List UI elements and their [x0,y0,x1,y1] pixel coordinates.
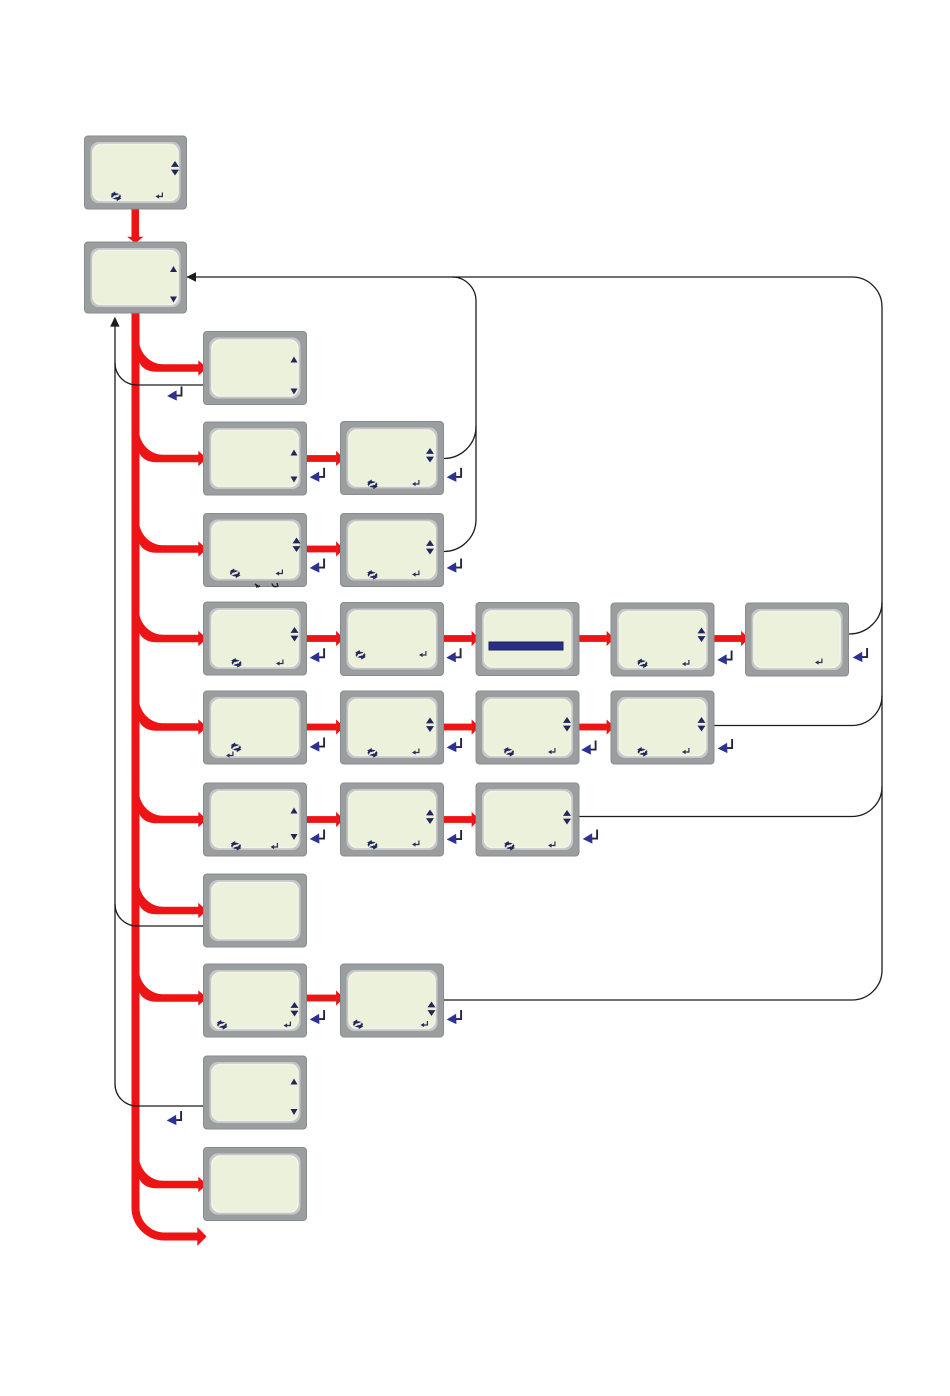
red trunk [136,310,198,1237]
enter icon row8 after col2 [447,1010,461,1024]
box row5 col1 [204,691,307,764]
enter icon row2 after col2 [447,468,461,482]
box row8 col2 [341,964,444,1037]
return branch from row1 [115,363,204,385]
enter icon row3 after col1 [310,559,324,573]
box row5 col2 [341,691,444,764]
box row4 col2 [341,603,444,676]
red arrow between boxes y=638.5 [577,635,607,642]
box row6 col1 [204,783,307,856]
return branch from row4 col5 [849,602,882,634]
return branch from row5 col4 [712,696,882,726]
box: main display [85,136,187,209]
enter icon row4 after col2 [446,648,460,662]
return vertical x=476: from row3 col2 up to top horizontal [444,277,477,552]
enter icon row2 after col1 [310,468,324,482]
box row2 col2 [341,422,444,495]
box row5 col4 [611,691,714,764]
red arrow between boxes y=727 [305,724,337,731]
return branch from row2 col2 joining x=476 vertical [444,427,477,459]
red arrow between boxes y=819.5 [305,816,337,823]
red arrow between boxes y=458.5 [305,455,337,462]
enter icon row4 after col1 [310,648,324,662]
red elbow arrow at y=1184.5 [139,1156,199,1189]
enter icon row6 after col3 [583,830,597,844]
box row4 col1 [204,602,307,675]
red arrow between boxes y=638.5 [305,635,337,642]
enter icon row5 after col2 [447,738,461,752]
enter icon row8 after col1 [310,1010,324,1024]
red elbow arrow at y=458.5 [139,430,199,463]
box row6 col2 [341,783,444,856]
red elbow arrow at y=549 [139,520,199,553]
box row3 col2 [341,514,444,587]
red arrow between boxes y=727 [577,724,607,731]
box row1 col1 [204,332,307,405]
box row6 col3 [476,783,579,856]
box row5 col3 [476,691,579,764]
red arrow main menu to menu trunk [132,208,140,237]
red arrow between boxes y=998 [305,995,337,1002]
box row4 col4 [611,603,714,676]
red arrow between boxes y=819.5 [442,816,472,823]
box row7 col1 (empty) [204,874,307,947]
return line left: row9 up to MENU box bottom [115,326,204,1106]
tiny clipped glyphs under row3 col1 [255,584,260,587]
box row4 col5 [746,603,849,676]
return branch from row6 col3 [578,787,882,817]
box row3 col1 [204,514,307,587]
enter icon row5 after col1 [310,738,324,752]
box row10 col1 (empty) [204,1148,307,1221]
red elbow arrow at y=998 [139,969,199,1002]
enter icon row1 [167,387,181,401]
red arrow between boxes y=638.5 [712,635,741,642]
return branch from row7 [115,904,204,926]
box row2 col1 [204,422,307,495]
red elbow arrow at y=638.5 [139,610,199,643]
red arrow between boxes y=727 [442,724,472,731]
box row8 col1 [204,964,307,1037]
red elbow arrow at y=910.5 [139,882,199,915]
enter icon row6 after col2 [447,830,461,844]
box row9 col1 [204,1056,307,1129]
red elbow arrow at y=727 [139,698,199,731]
red elbow arrow at y=368 [139,339,199,372]
red arrow between boxes y=638.5 [442,635,472,642]
enter icon row6 after col1 [310,830,324,844]
return line right main: into MENU box right side [187,277,883,1000]
enter icon row9 [167,1111,181,1125]
box: menu root [85,242,187,313]
red arrow between boxes y=549 [305,546,337,553]
enter icon row4 after col5 [853,648,867,662]
enter icon row5 after col4 [718,739,732,753]
enter icon row4 after col4 [717,651,731,665]
enter icon row3 after col2 [447,559,461,573]
red elbow arrow at y=819.5 [139,791,199,824]
enter icon row5 after col3 [581,741,595,755]
box row4 col3 (value bar) [476,603,579,676]
